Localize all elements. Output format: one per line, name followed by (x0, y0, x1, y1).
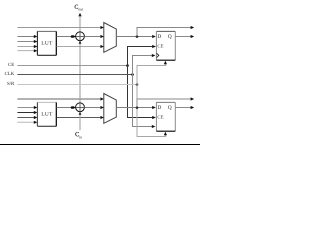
wire LUT2 input 4 (17, 121, 34, 123)
wire XOR2 output to mux (84, 107, 100, 109)
wire mux1 output to FF D (116, 36, 152, 38)
node junction J6 (LUT2 out) (71, 106, 74, 109)
wire C_in vertical (79, 115, 81, 131)
wire LUT2 output (row 107) (57, 107, 73, 109)
wire Q2 output (175, 107, 190, 109)
bottom frame line (0, 144, 200, 146)
wire LUT1 input 3 (17, 46, 34, 48)
label LUT2 text (41, 112, 52, 116)
label LUT1 text (41, 41, 52, 45)
pin label D FF2 (158, 105, 162, 109)
LUT U1 box (37, 31, 56, 55)
wire LUT2 input 2 (17, 112, 34, 114)
wire S/R global (row 84) (17, 84, 137, 86)
node junction J7 (mux2 out / bypass) (136, 106, 139, 109)
pin label Q FF2 (168, 105, 172, 109)
net label CLK (5, 72, 14, 75)
FF2 clock triangle (157, 124, 159, 128)
wire LUT1 second output (row 46) (57, 46, 101, 48)
wire CLK global (row 74) (17, 74, 132, 76)
carry arrow into XOR1 bottom (79, 41, 82, 44)
wire bypass output bottom (riser + row 98.5) (137, 99, 191, 108)
wire LUT1 output (row 36) (57, 36, 73, 38)
wire Q1 output (175, 36, 190, 38)
node junction J1 (LUT1 out) (71, 35, 74, 38)
wire S/R to FF2 bottom (137, 85, 166, 137)
wire CE global (row 65) (17, 65, 127, 67)
wire bypass input bottom (row 98.5) (17, 98, 100, 100)
net label C_in (75, 132, 79, 136)
wire CE riser and branches (128, 47, 156, 118)
mux M2 (104, 94, 117, 124)
wire LUT1 input 1 (17, 36, 34, 38)
node junction J2 (mux1 out / bypass) (136, 35, 139, 38)
wire LUT2 input 1 (17, 107, 34, 109)
node junction J5 (S/R tap) (136, 83, 139, 86)
node junction J3 (CE tap) (126, 64, 129, 67)
pin label CE FF2 (158, 115, 164, 118)
XOR gate carry top (76, 32, 85, 41)
pin label CE FF1 (158, 44, 164, 47)
flip-flop FF2 box (156, 102, 175, 131)
mux M1 (104, 23, 117, 53)
LUT U2 box (37, 102, 56, 126)
flip-flop FF1 box (156, 31, 175, 60)
net label CE (8, 63, 14, 66)
wire LUT2 input 3 (17, 117, 34, 119)
wire bypass input top (row 27) (17, 27, 100, 29)
carry arrow into XOR2 bottom (79, 112, 82, 115)
pin label D FF1 (158, 34, 162, 38)
wire LUT1 input 2 (17, 41, 34, 43)
XOR gate carry bottom (76, 103, 85, 112)
wire LUT2 second output (row 117) (57, 117, 101, 119)
wire XOR1 output to mux (84, 36, 100, 38)
pin label Q FF1 (168, 34, 172, 38)
wire CLK riser and branches (133, 56, 155, 127)
FF1 clock triangle (157, 53, 159, 57)
wire bypass output top (riser + row 27) (137, 28, 191, 37)
net label S/R (7, 82, 14, 85)
net label C_out (75, 5, 78, 9)
wire carry vertical middle (79, 44, 81, 103)
node junction J4 (CLK tap) (131, 73, 134, 76)
carry C_out arrow (78, 13, 81, 17)
wire mux2 output to FF2 D (116, 107, 152, 109)
wire S/R to FF1 bottom (137, 66, 166, 85)
wire LUT1 input 4 (17, 50, 34, 52)
